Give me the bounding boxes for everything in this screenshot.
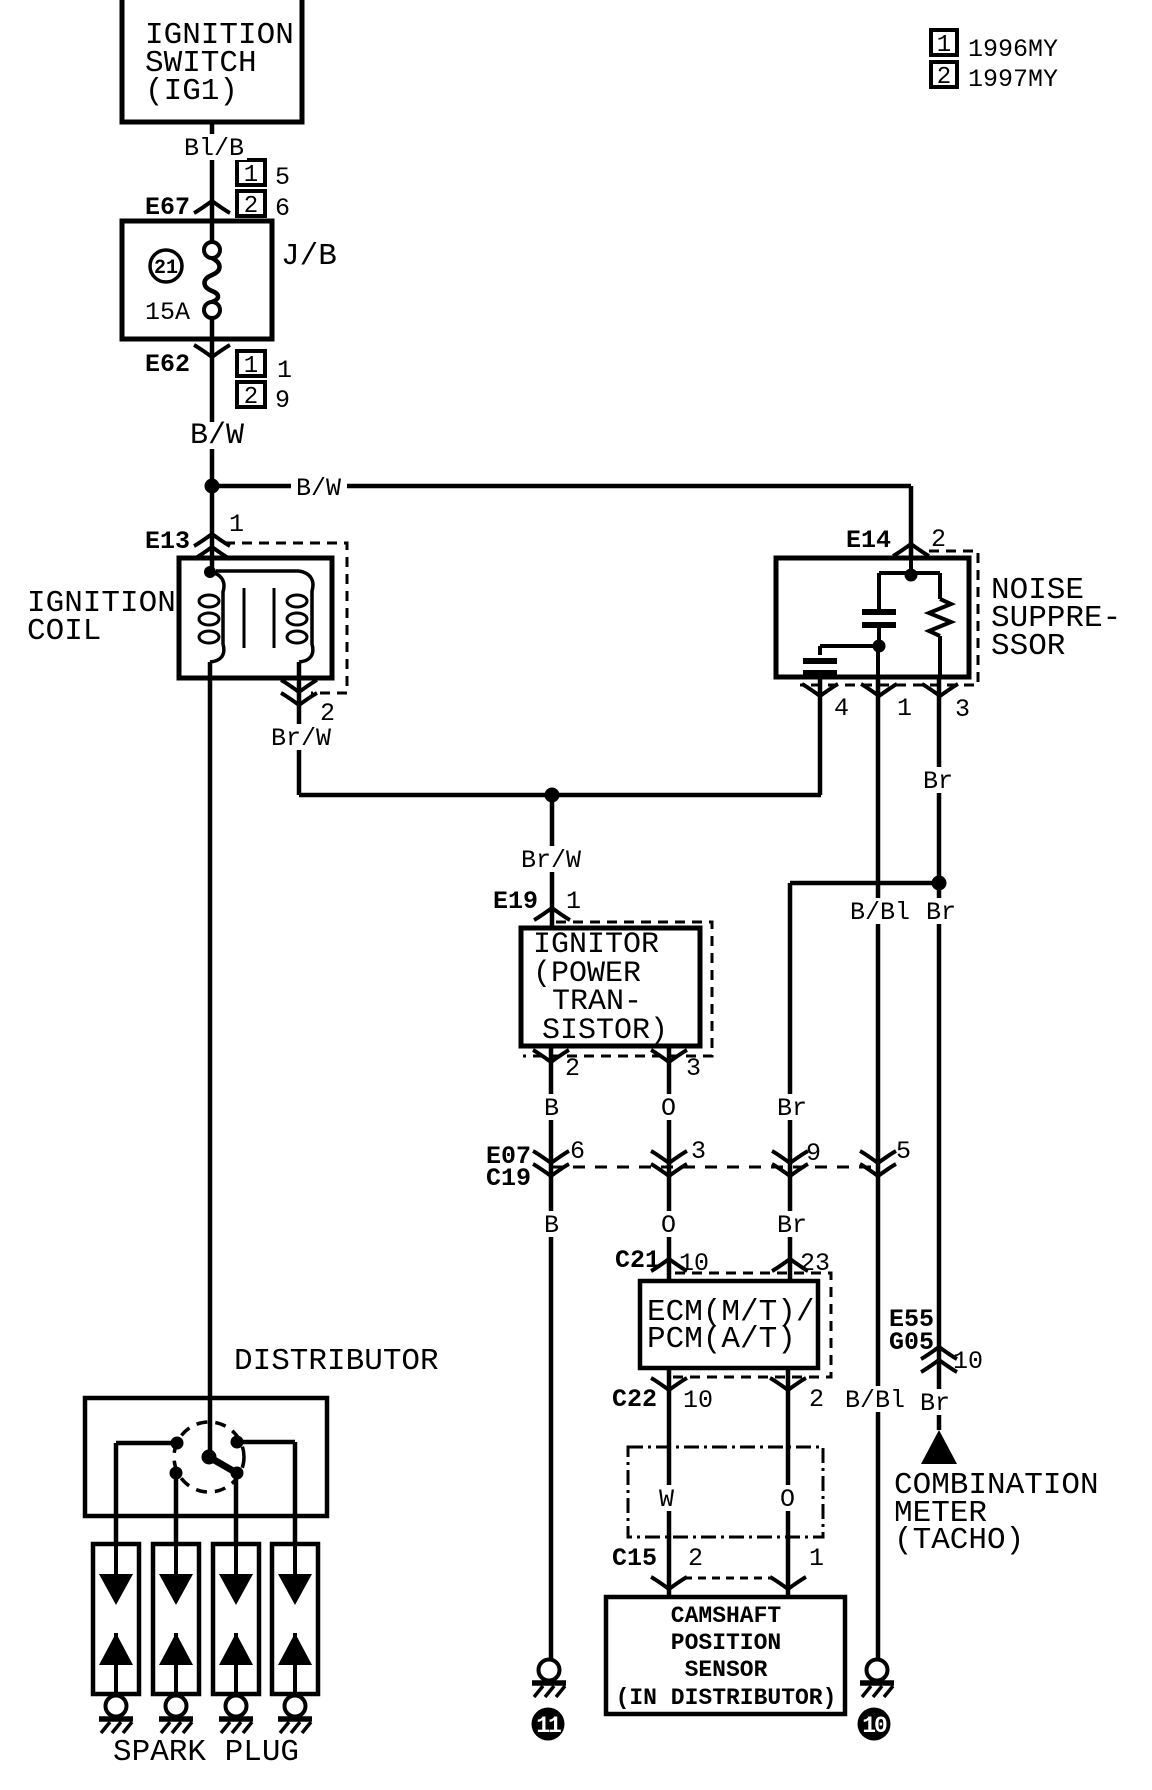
svg-text:E62: E62 bbox=[145, 350, 190, 379]
svg-text:2: 2 bbox=[931, 525, 946, 554]
svg-text:1997MY: 1997MY bbox=[968, 65, 1058, 94]
svg-text:E67: E67 bbox=[145, 193, 190, 222]
svg-text:2: 2 bbox=[809, 1385, 824, 1414]
svg-text:2: 2 bbox=[688, 1544, 703, 1573]
svg-text:SSOR: SSOR bbox=[991, 629, 1065, 664]
svg-text:3: 3 bbox=[955, 695, 970, 724]
svg-text:9: 9 bbox=[275, 386, 290, 415]
svg-text:POSITION: POSITION bbox=[671, 1630, 781, 1656]
svg-text:O: O bbox=[661, 1211, 676, 1240]
svg-text:B/W: B/W bbox=[190, 419, 244, 453]
svg-text:Br/W: Br/W bbox=[521, 846, 581, 875]
svg-text:(IG1): (IG1) bbox=[145, 74, 238, 109]
svg-text:1: 1 bbox=[229, 510, 244, 539]
svg-text:Bl/B: Bl/B bbox=[184, 134, 244, 163]
svg-text:B: B bbox=[544, 1211, 559, 1240]
svg-text:6: 6 bbox=[275, 194, 290, 223]
svg-text:Br: Br bbox=[777, 1211, 807, 1240]
svg-text:3: 3 bbox=[691, 1137, 706, 1166]
svg-text:(IN DISTRIBUTOR): (IN DISTRIBUTOR) bbox=[616, 1685, 837, 1711]
svg-text:Br: Br bbox=[926, 898, 956, 927]
svg-text:W: W bbox=[659, 1485, 674, 1514]
svg-text:11: 11 bbox=[536, 1713, 561, 1739]
svg-text:1: 1 bbox=[809, 1544, 824, 1573]
svg-text:21: 21 bbox=[154, 257, 178, 280]
svg-text:5: 5 bbox=[275, 163, 290, 192]
svg-text:1: 1 bbox=[566, 887, 581, 916]
svg-text:B: B bbox=[544, 1094, 559, 1123]
svg-text:Br: Br bbox=[777, 1094, 807, 1123]
svg-text:C15: C15 bbox=[612, 1544, 657, 1573]
svg-text:5: 5 bbox=[896, 1137, 911, 1166]
svg-text:O: O bbox=[780, 1485, 795, 1514]
svg-text:2: 2 bbox=[244, 384, 258, 411]
svg-text:O: O bbox=[661, 1094, 676, 1123]
svg-text:Br/W: Br/W bbox=[271, 724, 331, 753]
svg-text:B/Bl: B/Bl bbox=[845, 1386, 905, 1415]
svg-text:1: 1 bbox=[937, 32, 951, 59]
svg-text:1: 1 bbox=[277, 356, 292, 385]
svg-text:1: 1 bbox=[244, 353, 258, 380]
svg-text:C19: C19 bbox=[486, 1164, 531, 1193]
svg-text:E14: E14 bbox=[846, 526, 891, 555]
svg-text:10: 10 bbox=[953, 1347, 983, 1376]
svg-text:E13: E13 bbox=[145, 527, 190, 556]
svg-text:10: 10 bbox=[683, 1386, 713, 1415]
svg-text:G05: G05 bbox=[889, 1328, 934, 1357]
svg-text:B/Bl: B/Bl bbox=[850, 898, 910, 927]
svg-text:15A: 15A bbox=[145, 298, 190, 327]
svg-text:C21: C21 bbox=[615, 1246, 660, 1275]
svg-text:B/W: B/W bbox=[296, 474, 341, 503]
svg-text:1: 1 bbox=[244, 162, 258, 189]
svg-text:6: 6 bbox=[570, 1137, 585, 1166]
svg-text:1996MY: 1996MY bbox=[968, 35, 1058, 64]
svg-text:E19: E19 bbox=[493, 887, 538, 916]
svg-text:2: 2 bbox=[565, 1054, 580, 1083]
svg-text:COIL: COIL bbox=[27, 614, 101, 649]
svg-text:2: 2 bbox=[937, 64, 951, 91]
svg-text:4: 4 bbox=[834, 694, 849, 723]
svg-text:10: 10 bbox=[862, 1713, 887, 1739]
svg-text:9: 9 bbox=[806, 1139, 821, 1168]
svg-text:SENSOR: SENSOR bbox=[685, 1657, 768, 1683]
svg-text:CAMSHAFT: CAMSHAFT bbox=[671, 1603, 782, 1629]
svg-text:SPARK PLUG: SPARK PLUG bbox=[113, 1735, 299, 1770]
svg-text:10: 10 bbox=[679, 1249, 709, 1278]
svg-text:DISTRIBUTOR: DISTRIBUTOR bbox=[234, 1344, 439, 1379]
svg-text:1: 1 bbox=[897, 694, 912, 723]
svg-text:PCM(A/T): PCM(A/T) bbox=[647, 1322, 796, 1357]
svg-text:Br: Br bbox=[920, 1389, 950, 1418]
svg-text:(TACHO): (TACHO) bbox=[894, 1523, 1024, 1558]
svg-text:2: 2 bbox=[244, 193, 258, 220]
svg-text:3: 3 bbox=[686, 1054, 701, 1083]
svg-text:SISTOR): SISTOR) bbox=[542, 1014, 668, 1048]
svg-text:J/B: J/B bbox=[281, 239, 337, 274]
svg-text:C22: C22 bbox=[612, 1385, 657, 1414]
svg-text:23: 23 bbox=[800, 1249, 830, 1278]
svg-text:Br: Br bbox=[923, 767, 953, 796]
